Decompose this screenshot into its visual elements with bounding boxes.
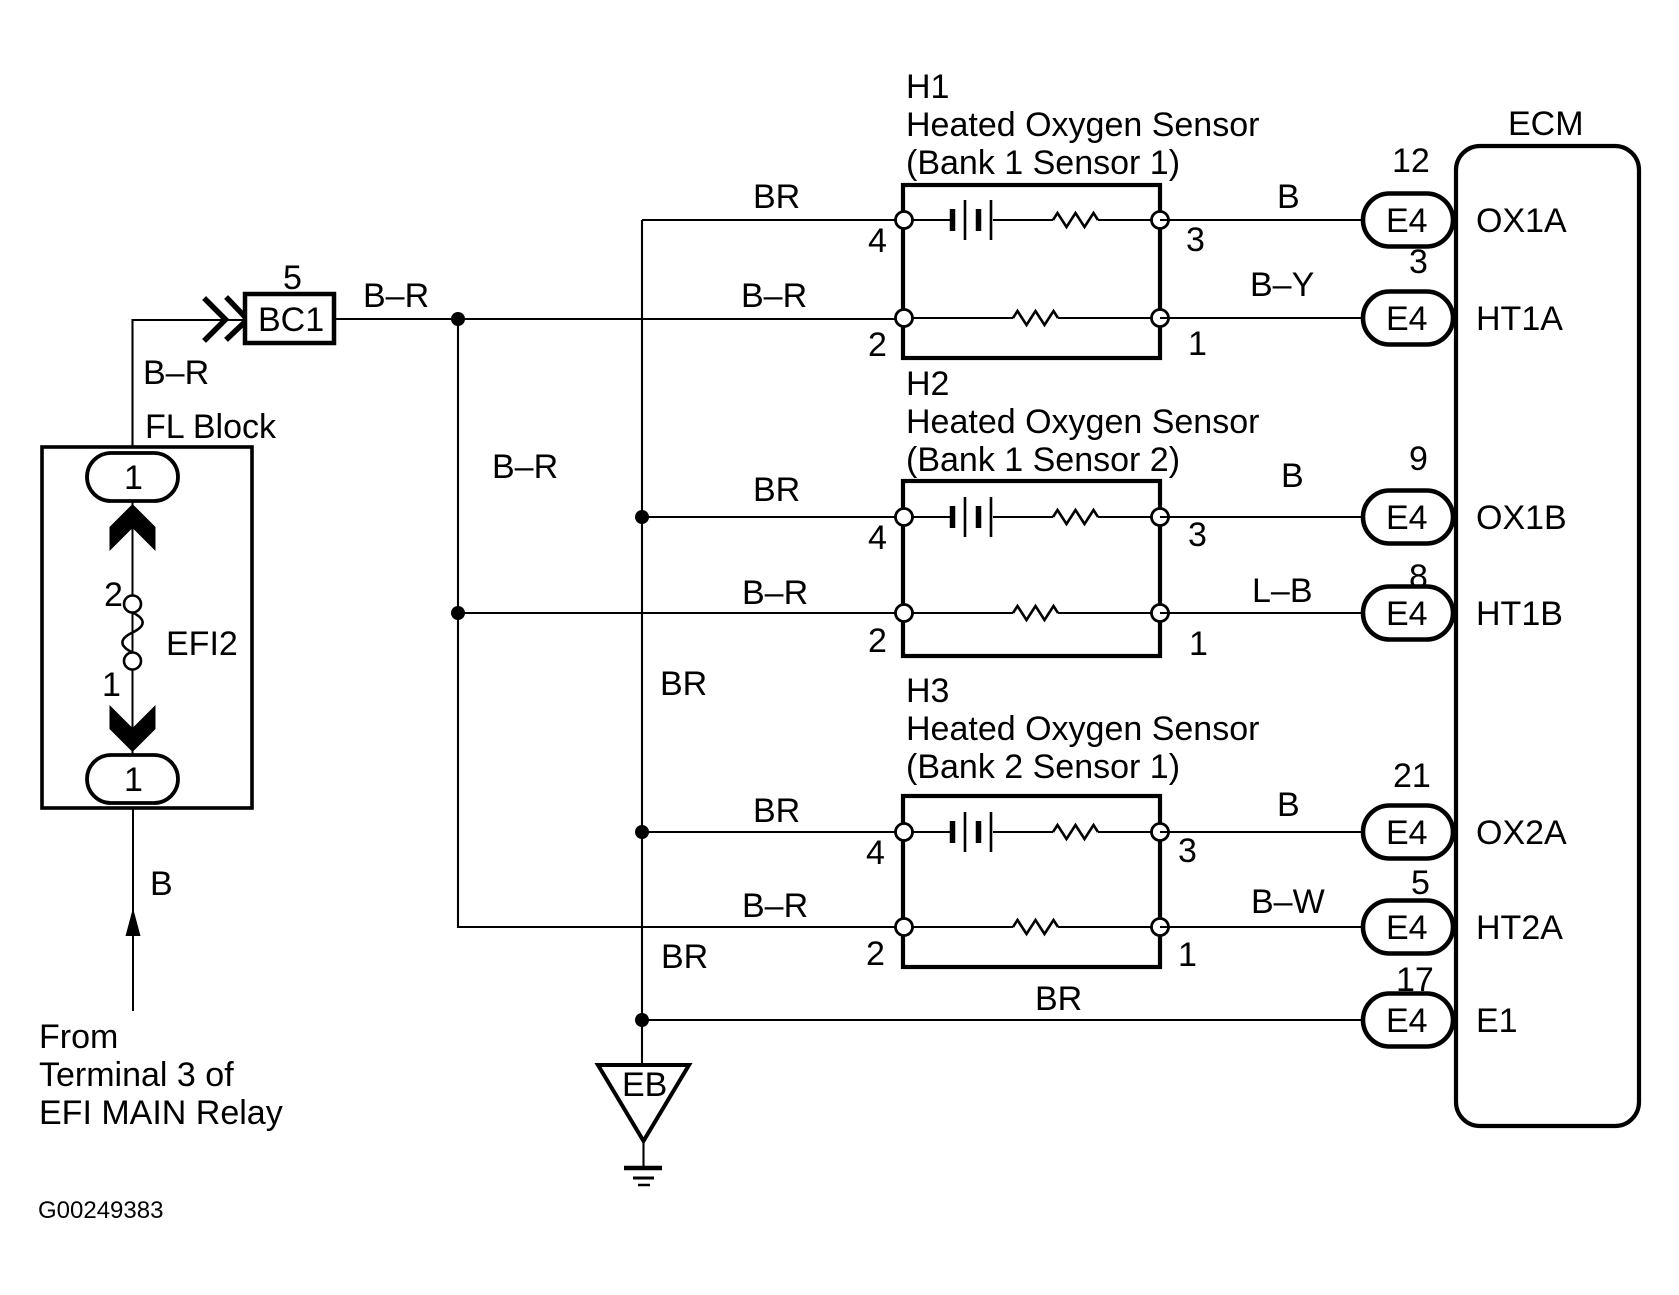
connector E4 pin 5 (HT2A) [1363, 864, 1563, 954]
svg-text:G00249383: G00249383 [38, 1197, 163, 1224]
wire label BR (bus upper) [660, 665, 707, 703]
svg-text:H3: H3 [906, 672, 949, 710]
junction BR bus to H2 pin4 [635, 510, 649, 524]
svg-text:HT1A: HT1A [1476, 300, 1563, 338]
svg-text:(Bank 1 Sensor 2): (Bank 1 Sensor 2) [906, 441, 1180, 479]
svg-text:Heated Oxygen Sensor: Heated Oxygen Sensor [906, 403, 1259, 441]
svg-text:BR: BR [1035, 980, 1082, 1018]
svg-text:B–R: B–R [742, 574, 808, 612]
pin 4 H2 [868, 509, 913, 558]
svg-text:BR: BR [660, 665, 707, 703]
sensor H1 box [903, 185, 1160, 358]
resistor H2 top [1053, 510, 1160, 524]
svg-text:12: 12 [1392, 142, 1430, 180]
wire BR bus to H3 pin4 [642, 831, 904, 833]
sensor H2 label [906, 365, 1259, 479]
wire BR bus to ECM E1 [642, 1019, 1363, 1021]
arrow down chevron (FL Block) [110, 705, 156, 752]
svg-text:3: 3 [1409, 243, 1428, 281]
svg-text:4: 4 [866, 834, 885, 872]
svg-text:3: 3 [1178, 832, 1197, 870]
svg-text:FL Block: FL Block [145, 408, 277, 446]
svg-text:9: 9 [1409, 440, 1428, 478]
svg-text:3: 3 [1188, 516, 1207, 554]
pin 1 H3 [1152, 919, 1197, 975]
svg-text:E4: E4 [1386, 1002, 1428, 1040]
svg-text:(Bank 2 Sensor 1): (Bank 2 Sensor 1) [906, 748, 1180, 786]
sensor H3 box [903, 796, 1160, 967]
svg-text:HT2A: HT2A [1476, 909, 1563, 947]
svg-text:E4: E4 [1386, 595, 1428, 633]
pin 1 H2 [1152, 605, 1208, 664]
svg-text:HT1B: HT1B [1476, 595, 1563, 633]
svg-text:E4: E4 [1386, 909, 1428, 947]
wire label B-R (after BC1) [363, 277, 429, 315]
svg-text:B: B [150, 865, 173, 903]
svg-text:B: B [1277, 786, 1300, 824]
wire H2 pin1 to ECM HT1B (L-B) [1160, 572, 1363, 613]
connector 1 (FL Block bottom) [87, 755, 178, 803]
connector chevron arrows into BC1 [206, 299, 248, 339]
FL Block internal wire [132, 501, 134, 755]
wire vertical BR ground bus [641, 220, 643, 1063]
wire label BR (to H1 pin4) [753, 178, 800, 216]
wire label B-R (before H1 pin 2) [741, 277, 807, 315]
wire BR bus to H2 pin4 [642, 516, 904, 518]
svg-text:1: 1 [102, 666, 121, 704]
svg-text:BR: BR [753, 178, 800, 216]
wire vertical B-R bus [458, 319, 904, 927]
arrow up chevron (FL Block) [110, 504, 156, 551]
wire B from EFI MAIN relay [126, 808, 173, 1011]
svg-text:4: 4 [868, 222, 887, 260]
label 5 (BC1 pin) [283, 259, 302, 297]
junction B-R bus to H2 pin2 [451, 606, 465, 620]
connector 1 (FL Block top) [87, 453, 178, 501]
sensor H3 label [906, 672, 1259, 786]
svg-text:(Bank 1 Sensor 1): (Bank 1 Sensor 1) [906, 144, 1180, 182]
svg-text:B–R: B–R [143, 354, 209, 392]
svg-text:2: 2 [868, 622, 887, 660]
resistor H3 top [1053, 825, 1160, 839]
pin 2 H3 [866, 919, 913, 974]
svg-text:B–R: B–R [742, 887, 808, 925]
FL Block box [42, 408, 277, 808]
connector E4 pin 8 (HT1B) [1363, 558, 1563, 640]
junction BR bus to H3 pin4 [635, 825, 649, 839]
wire BC1 to H1 pin2 (B-R) [334, 318, 904, 320]
connector E4 pin 12 (OX1A) [1363, 142, 1567, 247]
battery H1 (sensor cell) [904, 200, 1053, 240]
figure number G00249383 [38, 1197, 163, 1224]
svg-text:From: From [39, 1018, 118, 1056]
wire BR bus to H1 pin4 [642, 219, 904, 221]
svg-text:1: 1 [1188, 325, 1207, 363]
svg-text:B: B [1281, 457, 1304, 495]
svg-text:2: 2 [868, 326, 887, 364]
svg-text:OX1A: OX1A [1476, 202, 1567, 240]
svg-text:B–R: B–R [492, 448, 558, 486]
wire label BR (to H2 pin4) [753, 471, 800, 509]
connector E4 pin 21 (OX2A) [1363, 757, 1567, 859]
resistor H1 top [1053, 213, 1160, 227]
svg-text:21: 21 [1393, 757, 1431, 795]
svg-text:ECM: ECM [1508, 105, 1584, 143]
note From Terminal 3 of EFI MAIN Relay [39, 1018, 283, 1132]
svg-text:B–R: B–R [741, 277, 807, 315]
svg-text:OX2A: OX2A [1476, 814, 1567, 852]
svg-text:H1: H1 [906, 68, 949, 106]
terminal 2 circle (EFI2) [104, 576, 141, 614]
svg-text:Terminal 3 of: Terminal 3 of [39, 1056, 234, 1094]
svg-text:L–B: L–B [1252, 572, 1313, 610]
pin 2 H1 [868, 310, 913, 365]
wire H2 pin3 to ECM OX1B (B) [1160, 457, 1363, 517]
svg-text:3: 3 [1186, 221, 1205, 259]
svg-text:BR: BR [753, 792, 800, 830]
wire label BR (to H3 pin4) [753, 792, 800, 830]
pin 4 H3 [866, 824, 913, 873]
svg-text:E4: E4 [1386, 202, 1428, 240]
resistor H3 heater [904, 920, 1160, 934]
pin 3 H2 [1152, 509, 1207, 555]
svg-text:1: 1 [1178, 936, 1197, 974]
svg-text:5: 5 [1411, 864, 1430, 902]
svg-text:B: B [1277, 178, 1300, 216]
wire label B-R (to H2 pin2) [742, 574, 808, 612]
svg-text:5: 5 [283, 259, 302, 297]
terminal 1 circle (EFI2) [102, 653, 141, 705]
svg-text:H2: H2 [906, 365, 949, 403]
wire H3 pin3 to ECM OX2A (B) [1160, 786, 1363, 832]
wire H3 pin1 to ECM HT2A (B-W) [1160, 883, 1363, 927]
svg-text:E1: E1 [1476, 1002, 1518, 1040]
wire from FL Block to BC1 (B-R) [133, 320, 246, 453]
connector E4 pin 17 (E1) [1363, 961, 1518, 1047]
battery H2 (sensor cell) [904, 497, 1053, 537]
svg-text:4: 4 [868, 519, 887, 557]
svg-text:EFI MAIN Relay: EFI MAIN Relay [39, 1094, 283, 1132]
svg-text:1: 1 [1189, 625, 1208, 663]
sensor H1 label [906, 68, 1259, 182]
svg-text:B–Y: B–Y [1250, 266, 1314, 304]
svg-text:2: 2 [866, 935, 885, 973]
ground EB [598, 1065, 689, 1185]
ECM box [1456, 105, 1639, 1126]
svg-text:OX1B: OX1B [1476, 499, 1567, 537]
wire B-R bus to H2 pin2 [458, 612, 904, 614]
battery H3 (sensor cell) [904, 812, 1053, 852]
pin 3 H1 [1152, 212, 1205, 260]
connector E4 pin 3 (HT1A) [1363, 243, 1563, 345]
svg-text:E4: E4 [1386, 499, 1428, 537]
svg-text:Heated Oxygen Sensor: Heated Oxygen Sensor [906, 710, 1259, 748]
svg-text:B–W: B–W [1251, 883, 1325, 921]
pin 3 H3 [1152, 824, 1197, 871]
sensor H2 box [903, 481, 1160, 656]
wire label B-R (left vertical) [143, 354, 209, 392]
connector BC1 [245, 294, 334, 343]
svg-text:E4: E4 [1386, 814, 1428, 852]
wire H1 pin3 to ECM OX1A (B) [1160, 178, 1363, 220]
svg-text:BR: BR [661, 938, 708, 976]
wire label BR (E1 wire) [1035, 980, 1082, 1018]
pin 1 H1 [1152, 310, 1207, 364]
resistor H2 heater [904, 606, 1160, 620]
connector E4 pin 9 (OX1B) [1363, 440, 1567, 544]
pin 4 H1 [868, 212, 913, 261]
svg-text:EB: EB [622, 1066, 667, 1104]
wire H1 pin1 to ECM HT1A (B-Y) [1160, 266, 1363, 318]
wire label B-R (vertical bus) [492, 448, 558, 486]
svg-text:EFI2: EFI2 [166, 625, 238, 663]
fusible link EFI2 squiggle [122, 613, 237, 664]
wire label B-R (to H3 pin2) [742, 887, 808, 925]
wire label BR (bus lower) [661, 938, 708, 976]
svg-text:Heated Oxygen Sensor: Heated Oxygen Sensor [906, 106, 1259, 144]
svg-text:BC1: BC1 [258, 301, 324, 339]
svg-text:2: 2 [104, 576, 123, 614]
svg-text:B–R: B–R [363, 277, 429, 315]
junction BR bus to E1 wire [635, 1013, 649, 1027]
resistor H1 heater [904, 311, 1160, 325]
junction at BC1 wire [451, 312, 465, 326]
svg-text:E4: E4 [1386, 300, 1428, 338]
svg-text:BR: BR [753, 471, 800, 509]
svg-text:1: 1 [124, 761, 143, 799]
pin 2 H2 [868, 605, 913, 661]
svg-text:1: 1 [124, 459, 143, 497]
